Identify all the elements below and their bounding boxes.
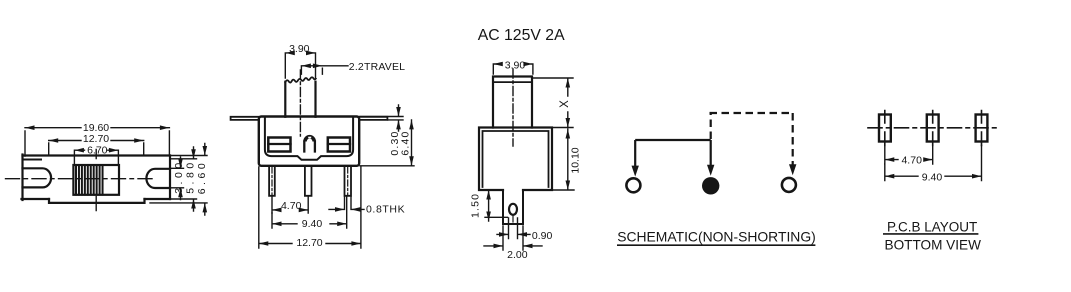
dimension 1.50 (side) bbox=[470, 190, 508, 221]
top view outline: right edge bbox=[169, 156, 171, 200]
svg-text:BOTTOM VIEW: BOTTOM VIEW bbox=[885, 238, 982, 253]
top view outline: left slot bbox=[23, 168, 52, 187]
dimension 3.90 (front) bbox=[285, 43, 315, 78]
svg-text:1.50: 1.50 bbox=[470, 194, 482, 218]
top view outline: right ear bottom bbox=[145, 198, 171, 200]
pcb horizontal centerline bbox=[868, 127, 998, 129]
svg-text:12.70: 12.70 bbox=[296, 237, 322, 249]
dimension 3.90 (side) bbox=[493, 60, 533, 74]
side view pin hole bbox=[509, 204, 517, 215]
schematic solid wire bbox=[635, 140, 711, 168]
schematic dashed wire arrowhead bbox=[789, 164, 796, 175]
svg-text:6.70: 6.70 bbox=[87, 144, 108, 156]
top view outline: right slot bbox=[146, 169, 170, 188]
dimension 6.70 bbox=[74, 144, 118, 163]
front view inner pocket bbox=[265, 118, 353, 160]
front view center pin bbox=[305, 166, 312, 196]
front view right flange bbox=[359, 117, 387, 120]
dimension 0.8THK bbox=[329, 197, 405, 215]
svg-text:19.60: 19.60 bbox=[83, 122, 109, 134]
svg-text:AC 125V 2A: AC 125V 2A bbox=[478, 27, 565, 44]
svg-text:12.70: 12.70 bbox=[83, 133, 109, 145]
dimension 4.70 (front) bbox=[272, 197, 308, 213]
pcb pad 2 bbox=[927, 111, 939, 146]
pcb caption underline bbox=[884, 233, 978, 235]
svg-text:10.10: 10.10 bbox=[570, 147, 582, 173]
dimension 19.60 bbox=[25, 122, 169, 156]
side view body inner bbox=[483, 131, 549, 187]
top view vertical centerline ticks bbox=[95, 150, 97, 211]
dimension 6.60 (vertical, right stack) bbox=[150, 144, 208, 216]
side view actuator cap line bbox=[493, 81, 532, 83]
pcb dimension 4.70 bbox=[885, 146, 933, 167]
top view knob hatching bbox=[76, 165, 103, 194]
front view right window bbox=[328, 138, 350, 152]
pcb pad 3 bbox=[976, 111, 988, 146]
dimension X (side) bbox=[533, 78, 573, 128]
top view outline: left ear fold line bbox=[23, 159, 42, 161]
dimension 6.40 (front right) bbox=[360, 120, 414, 166]
svg-text:5.80: 5.80 bbox=[185, 163, 197, 194]
dimension 2.2TRAVEL bbox=[301, 61, 405, 74]
schematic terminal 2 (common, filled circle) bbox=[702, 177, 719, 194]
schematic terminal 1 (open circle) bbox=[626, 178, 640, 192]
svg-text:P.C.B LAYOUT: P.C.B LAYOUT bbox=[887, 219, 977, 234]
top view outline: body bottom bbox=[49, 199, 145, 203]
front view body bbox=[259, 117, 359, 166]
svg-text:3.00: 3.00 bbox=[173, 163, 185, 194]
svg-text:0.90: 0.90 bbox=[532, 230, 553, 242]
side view pin centerline tick bbox=[512, 216, 514, 222]
side view centerline bbox=[512, 69, 514, 146]
schematic solid wire arrowheads bbox=[632, 165, 715, 177]
svg-text:X: X bbox=[559, 100, 571, 108]
svg-text:3.90: 3.90 bbox=[289, 43, 310, 55]
svg-text:0.8THK: 0.8THK bbox=[366, 203, 405, 215]
side view body outer bbox=[479, 128, 552, 191]
front view actuator knurled top bbox=[285, 77, 315, 82]
schematic terminal 3 (open circle) bbox=[782, 178, 796, 192]
svg-text:SCHEMATIC(NON-SHORTING): SCHEMATIC(NON-SHORTING) bbox=[617, 228, 816, 244]
dimension 3.00 (vertical, right stack) bbox=[170, 157, 185, 200]
top view outline: left ear bottom bbox=[22, 198, 50, 200]
dimension 0.90 (side) bbox=[497, 218, 552, 242]
svg-text:6.60: 6.60 bbox=[196, 163, 208, 194]
svg-text:9.40: 9.40 bbox=[302, 218, 323, 230]
front view center rivet keyhole bbox=[303, 135, 316, 152]
pcb dimension 9.40 bbox=[885, 146, 982, 184]
svg-text:2.00: 2.00 bbox=[507, 249, 528, 261]
schematic dashed wire bbox=[710, 113, 793, 166]
dimension 0.30 (front right) bbox=[360, 105, 403, 156]
svg-text:6.40: 6.40 bbox=[400, 131, 412, 155]
dimension 12.70 bbox=[49, 133, 144, 155]
top view knob rectangle bbox=[73, 165, 119, 195]
dimension 9.40 (front) bbox=[272, 197, 347, 230]
front view actuator centerline bbox=[299, 70, 301, 136]
svg-text:4.70: 4.70 bbox=[281, 200, 302, 212]
svg-text:9.40: 9.40 bbox=[922, 172, 943, 184]
side view pin bbox=[503, 190, 523, 224]
front view actuator bbox=[285, 82, 315, 117]
top view outline: plate top edge bbox=[23, 154, 171, 156]
svg-text:4.70: 4.70 bbox=[901, 155, 922, 167]
front view left flange bbox=[231, 117, 259, 120]
front view left window bbox=[268, 138, 290, 152]
svg-text:3.90: 3.90 bbox=[505, 60, 526, 72]
dimension 12.70 (front) bbox=[259, 167, 361, 249]
top view outline: left edge bbox=[21, 155, 23, 201]
front view right pin bbox=[345, 166, 352, 196]
front view left pin bbox=[269, 166, 275, 196]
dimension 10.10 (side) bbox=[552, 129, 582, 190]
pcb pad 1 bbox=[879, 111, 891, 146]
dimension 5.80 (vertical, right stack) bbox=[170, 147, 197, 211]
side view actuator bbox=[493, 77, 532, 128]
svg-text:2.2TRAVEL: 2.2TRAVEL bbox=[349, 61, 405, 73]
top view horizontal centerline bbox=[6, 178, 153, 180]
dimension 2.00 (side) bbox=[484, 226, 542, 261]
schematic caption underline bbox=[617, 244, 815, 246]
